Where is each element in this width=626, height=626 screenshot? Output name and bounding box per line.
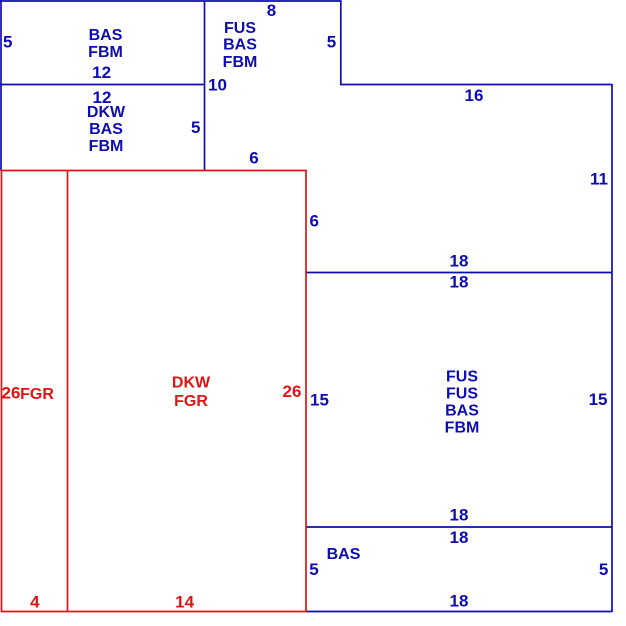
- svg-text:5: 5: [3, 33, 12, 52]
- wall: red garage top edge: [1, 170, 307, 172]
- svg-text:26: 26: [283, 382, 302, 401]
- svg-text:DKW: DKW: [87, 104, 126, 121]
- svg-text:FUS: FUS: [224, 20, 256, 37]
- svg-text:26: 26: [2, 384, 21, 403]
- wall: horizontal y85 right: [340, 84, 612, 86]
- wall: red garage bottom edge: [1, 611, 307, 613]
- wall: interior horizontal y527: [306, 526, 612, 528]
- wall: red interior vertical x67: [67, 170, 69, 612]
- svg-text:FBM: FBM: [223, 54, 258, 71]
- svg-text:FBM: FBM: [88, 44, 123, 61]
- svg-text:DKW: DKW: [172, 374, 211, 391]
- svg-text:10: 10: [208, 76, 227, 95]
- svg-text:FUS: FUS: [446, 368, 478, 385]
- svg-text:16: 16: [465, 86, 484, 105]
- svg-text:4: 4: [30, 593, 40, 612]
- svg-text:BAS: BAS: [445, 402, 479, 419]
- svg-text:8: 8: [267, 1, 276, 20]
- svg-text:18: 18: [450, 273, 469, 292]
- svg-text:11: 11: [590, 170, 608, 189]
- wall: red garage right edge: [305, 170, 307, 612]
- svg-text:6: 6: [249, 149, 258, 168]
- wall: right edge blue: [611, 84, 613, 612]
- svg-text:18: 18: [450, 591, 469, 610]
- svg-text:BAS: BAS: [89, 27, 123, 44]
- svg-text:BAS: BAS: [89, 121, 123, 138]
- svg-text:18: 18: [450, 528, 469, 547]
- svg-text:15: 15: [310, 391, 329, 410]
- svg-text:BAS: BAS: [327, 546, 361, 563]
- wall: interior vertical x204: [204, 1, 206, 171]
- svg-text:5: 5: [309, 560, 318, 579]
- svg-text:18: 18: [450, 506, 469, 525]
- svg-text:FBM: FBM: [89, 138, 124, 155]
- wall: bottom edge blue: [306, 611, 612, 613]
- svg-text:6: 6: [310, 212, 319, 231]
- svg-text:5: 5: [191, 118, 200, 137]
- svg-text:5: 5: [599, 560, 608, 579]
- svg-text:18: 18: [450, 251, 469, 270]
- svg-text:12: 12: [92, 63, 111, 82]
- wall: interior horizontal y272: [306, 272, 612, 274]
- svg-text:FUS: FUS: [446, 385, 478, 402]
- wall: top edge blue: [0, 0, 342, 2]
- svg-text:FGR: FGR: [20, 386, 54, 403]
- svg-text:BAS: BAS: [223, 37, 257, 54]
- svg-text:FBM: FBM: [445, 419, 480, 436]
- svg-text:5: 5: [327, 32, 336, 51]
- wall: vertical x340 upper right: [340, 1, 342, 85]
- wall: red garage left edge: [1, 170, 3, 612]
- svg-text:14: 14: [175, 593, 194, 612]
- wall: left edge upper blue: [0, 0, 2, 171]
- svg-text:15: 15: [589, 390, 608, 409]
- svg-text:FGR: FGR: [174, 393, 208, 410]
- wall: interior horizontal y85 left: [0, 84, 205, 86]
